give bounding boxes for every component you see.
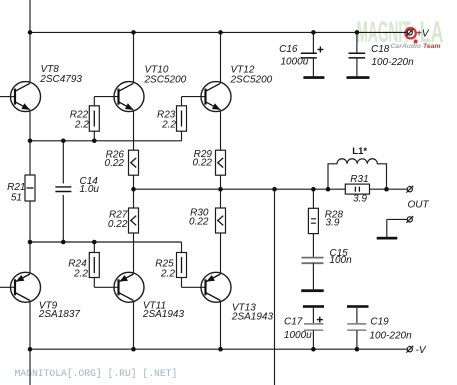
svg-text:51: 51 <box>11 193 22 204</box>
junction dot node col B <box>131 187 136 192</box>
wire: VT9 base stub <box>0 286 15 288</box>
transistor VT8 (NPN 2SC4793) <box>11 82 41 112</box>
resistor R22 <box>89 97 99 141</box>
junction dot C17 bottom <box>311 347 316 352</box>
svg-text:2SC4793: 2SC4793 <box>39 74 82 85</box>
wire: output node line <box>134 188 408 190</box>
svg-text:100-220n: 100-220n <box>369 330 412 341</box>
svg-text:3.9: 3.9 <box>326 218 340 229</box>
svg-text:C16: C16 <box>279 44 298 55</box>
wire: lower bias bus <box>30 241 182 243</box>
wire: R21/C14 column A down <box>29 141 31 242</box>
junction dot rail col C <box>218 347 223 352</box>
wire: +V top rail <box>30 31 407 33</box>
svg-text:+V: +V <box>416 28 430 39</box>
ground bar under C18 <box>347 76 370 79</box>
svg-text:3.9: 3.9 <box>353 194 367 205</box>
svg-text:2.2: 2.2 <box>161 119 176 130</box>
capacitor C19 <box>347 305 369 349</box>
junction dot R28 top <box>311 187 316 192</box>
junction dot top rail col C <box>218 30 223 35</box>
wire: C14 vertical <box>62 141 64 242</box>
wire: VT13 collector to rail <box>220 302 222 350</box>
junction dot L1 left <box>326 187 331 192</box>
wire: VT8 emitter down to bus <box>29 111 31 141</box>
wire: VT10 emitter / R26 / node / R27 column <box>133 111 135 273</box>
svg-text:2.2: 2.2 <box>73 269 88 280</box>
capacitor C17 <box>303 305 324 349</box>
junction dot VT8 emitter / bus <box>28 139 33 144</box>
svg-text:CarAudio Team: CarAudio Team <box>391 43 441 50</box>
junction dot top rail col A <box>28 30 33 35</box>
wire: VT8 collector riser to top edge <box>29 0 31 83</box>
junction dot R22 bottom <box>92 139 97 144</box>
svg-text:2.2: 2.2 <box>74 119 89 130</box>
svg-text:C18: C18 <box>371 44 390 55</box>
svg-text:100n: 100n <box>329 255 352 266</box>
ground bar (OUT) <box>377 237 398 240</box>
svg-text:2.2: 2.2 <box>160 269 175 280</box>
svg-text:C17: C17 <box>284 317 303 328</box>
wire: VT12 base <box>182 96 206 98</box>
svg-text:-V: -V <box>416 345 427 356</box>
transistor VT11 (PNP 2SA1943) <box>114 272 144 302</box>
transistor VT9 (PNP 2SA1837) <box>11 242 41 302</box>
svg-text:0.22: 0.22 <box>189 217 209 228</box>
transistor VT10 (NPN 2SC5200) <box>114 82 144 112</box>
junction dot L1 right <box>384 187 389 192</box>
svg-text:1000u: 1000u <box>281 56 309 67</box>
watermark logo MAGNITOLA (green) <box>357 15 444 49</box>
svg-text:2SA1943: 2SA1943 <box>231 312 274 323</box>
svg-text:R31: R31 <box>350 174 368 185</box>
junction dot rail col A <box>28 347 33 352</box>
watermark logo red ring <box>405 28 417 43</box>
wire: VT12 collector <box>220 32 222 82</box>
junction dot output down line <box>272 187 277 192</box>
svg-text:2SC5200: 2SC5200 <box>230 74 273 85</box>
inductor L1 <box>328 159 387 189</box>
transistor VT12 (NPN 2SC5200) <box>201 82 231 112</box>
svg-text:L1*: L1* <box>352 146 367 157</box>
resistor R31 <box>345 184 369 194</box>
ground bar under C15 <box>301 289 324 292</box>
resistor R29 <box>216 150 226 175</box>
wire: VT11 base <box>94 286 118 288</box>
resistor R28 <box>308 189 318 257</box>
svg-text:100-220n: 100-220n <box>371 57 414 68</box>
svg-text:0.22: 0.22 <box>108 219 128 230</box>
transistor VT13 (PNP 2SA1943) <box>201 272 231 302</box>
svg-text:1.0u: 1.0u <box>80 184 100 195</box>
svg-text:0.22: 0.22 <box>105 158 125 169</box>
svg-text:OUT: OUT <box>408 200 430 211</box>
resistor R27 <box>129 208 139 233</box>
junction dot C16 top <box>311 30 316 35</box>
terminal OUT ground <box>387 216 413 237</box>
junction dot C19 bottom <box>355 347 360 352</box>
wire: VT11 collector to rail <box>133 302 135 350</box>
svg-text:1000u: 1000u <box>284 330 312 341</box>
wire: VT12 emitter / R29 / R30 column <box>220 111 222 273</box>
resistor R25 <box>177 242 187 287</box>
wire: output feed down line (crosses -V rail) <box>274 189 276 385</box>
svg-text:C19: C19 <box>370 317 389 328</box>
junction dot node col C <box>218 187 223 192</box>
junction dot C18 top <box>355 30 360 35</box>
junction dot lower bus col A <box>28 240 33 245</box>
junction dot rail col B <box>131 347 136 352</box>
terminal +V <box>406 29 413 36</box>
junction dot R24 top <box>92 240 97 245</box>
terminal -V <box>406 346 413 353</box>
wire: -V bottom rail <box>30 348 407 350</box>
wire: upper bias bus <box>30 140 182 142</box>
ground bar under C16 <box>303 76 324 79</box>
svg-text:2SA1943: 2SA1943 <box>142 309 185 320</box>
junction dot top rail col B <box>131 30 136 35</box>
wire: VT10 base <box>94 96 118 98</box>
resistor R23 <box>177 97 187 141</box>
junction dot C14 top <box>61 139 66 144</box>
resistor R30 <box>216 208 226 233</box>
svg-text:2SC5200: 2SC5200 <box>144 75 187 86</box>
wire: VT10 collector <box>133 32 135 82</box>
capacitor C15 <box>302 258 324 290</box>
watermark CarAudio Team <box>391 43 441 50</box>
wire: VT8 base stub <box>0 96 15 98</box>
svg-text:2SA1837: 2SA1837 <box>38 309 81 320</box>
capacitor C18 <box>349 32 366 76</box>
wire: VT9 collector down past rail to bottom edge <box>29 302 31 385</box>
svg-text:0.22: 0.22 <box>193 158 213 169</box>
capacitor C16 <box>301 32 324 76</box>
resistor R21 <box>25 175 35 201</box>
capacitor C14 <box>55 184 71 196</box>
resistor R26 <box>129 150 139 175</box>
terminal OUT <box>406 186 413 193</box>
wire: VT13 base <box>182 286 206 288</box>
svg-text:MAGNITOLA[.ORG] [.RU] [.NET]: MAGNITOLA[.ORG] [.RU] [.NET] <box>15 368 178 379</box>
svg-text:R21: R21 <box>7 182 25 193</box>
resistor R24 <box>89 242 99 287</box>
junction dot C14 bottom <box>61 240 66 245</box>
